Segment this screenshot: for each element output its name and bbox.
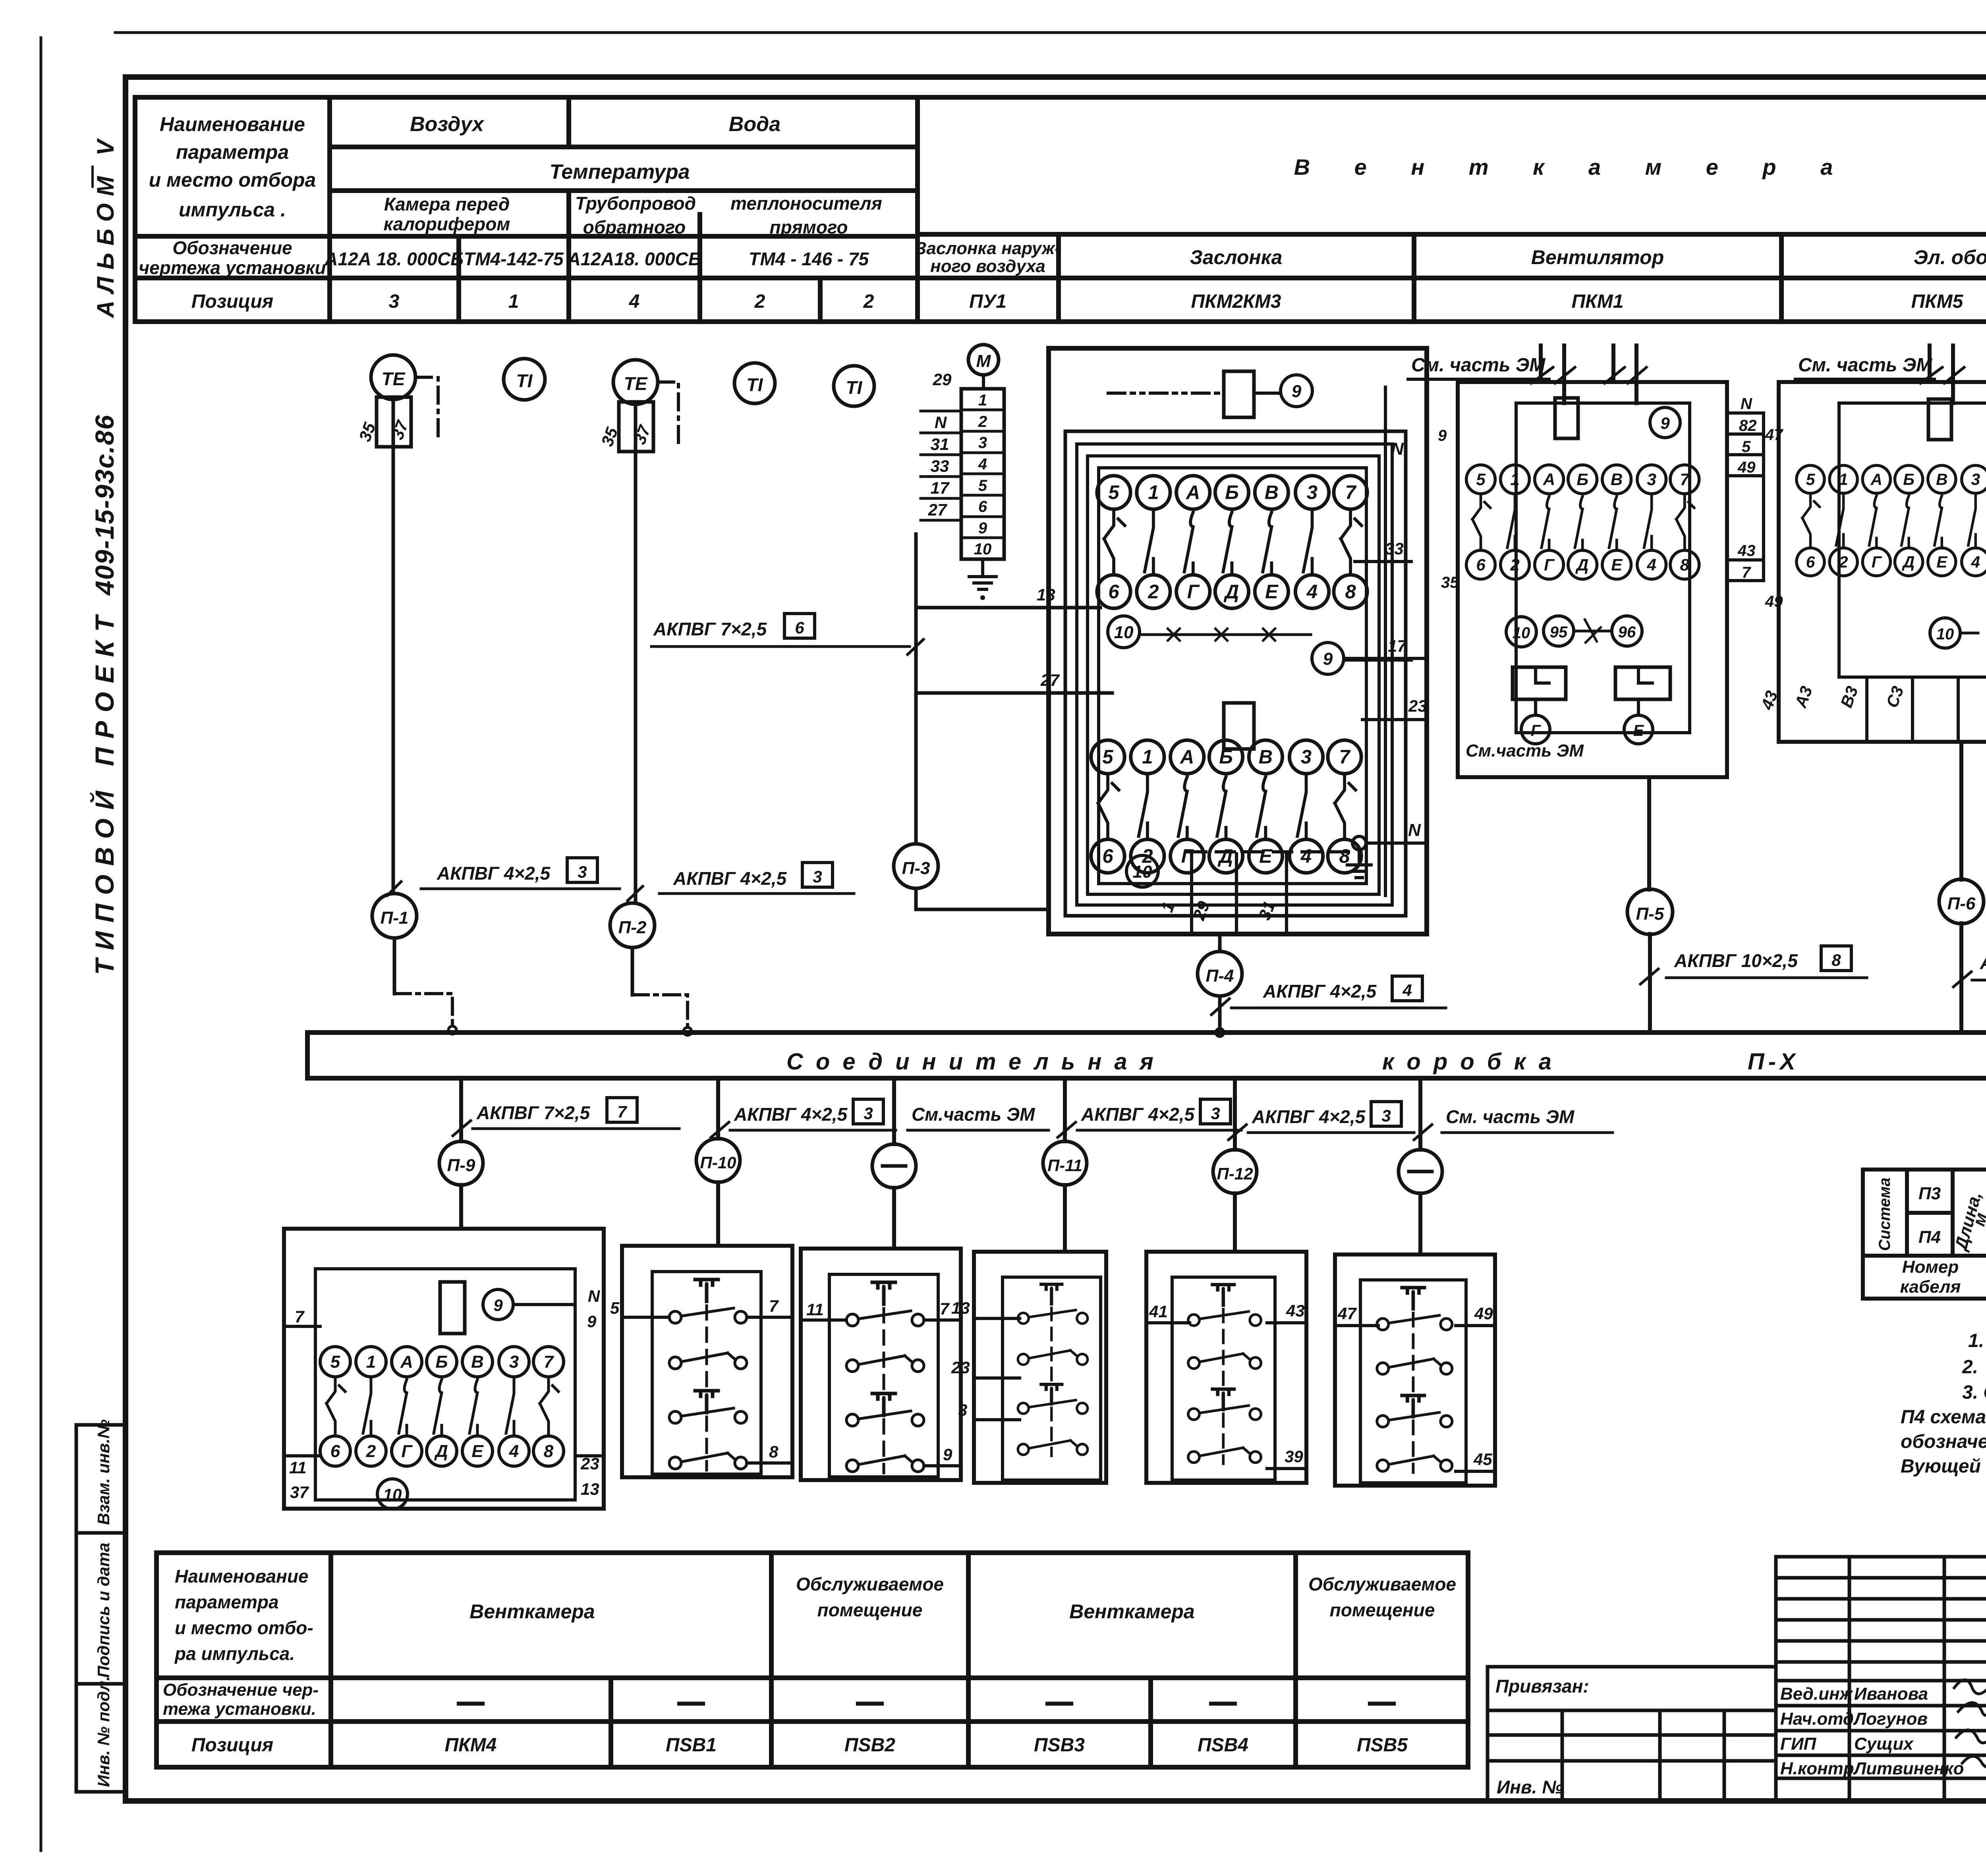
note 3 — [1901, 1382, 1986, 1477]
wire 17 right exit — [1344, 637, 1411, 660]
block A nested loops — [1065, 431, 1406, 916]
cable label AKPVG 7x2.5 [7] — [453, 1098, 679, 1136]
svg-text:9: 9 — [1323, 649, 1333, 669]
wire TE2 to cable P-2 — [634, 452, 638, 901]
svg-text:А12А18. 000СБ: А12А18. 000СБ — [567, 249, 701, 269]
svg-text:Система: Система — [1876, 1177, 1893, 1251]
svg-text:П-10: П-10 — [700, 1153, 736, 1172]
svg-text:Вед.инж: Вед.инж — [1780, 1684, 1854, 1704]
wire P-4 riser — [1216, 934, 1224, 1036]
svg-text:17: 17 — [931, 479, 950, 497]
svg-text:N: N — [1391, 439, 1404, 459]
svg-text:6: 6 — [795, 618, 804, 637]
svg-text:13: 13 — [1037, 585, 1055, 604]
svg-text:Наименование: Наименование — [175, 1566, 309, 1586]
P-5 block outer rect — [1458, 382, 1727, 777]
PKM4 side labels — [289, 1287, 601, 1502]
block A relay coil 1 — [1108, 371, 1254, 417]
block PSB2 inner rect — [829, 1274, 938, 1477]
svg-text:N: N — [1741, 395, 1752, 413]
svg-text:5: 5 — [610, 1299, 620, 1317]
svg-text:9: 9 — [1438, 427, 1447, 444]
wire 27 left exit — [916, 671, 1112, 693]
svg-text:Инв. № подл.: Инв. № подл. — [94, 1676, 113, 1787]
PSB5 stubs and labels — [1335, 1304, 1495, 1471]
svg-text:Температура: Температура — [549, 160, 690, 183]
svg-text:5: 5 — [1742, 438, 1751, 455]
svg-text:Обозначение: Обозначение — [172, 237, 292, 258]
svg-text:Вующей системы.: Вующей системы. — [1901, 1456, 1986, 1477]
title left box privyazan — [1488, 1667, 1776, 1801]
cable circle P-6 — [1939, 879, 1984, 924]
wire P-5 riser — [1649, 777, 1650, 1033]
svg-text:2.: 2. — [1962, 1357, 1978, 1378]
svg-text:9: 9 — [1660, 414, 1670, 432]
svg-text:17: 17 — [1388, 637, 1407, 655]
wire 13 left exit — [916, 585, 1100, 608]
left stamp text podpis — [94, 1543, 113, 1678]
cable label AKPVG 4x2.5 [3] lower3 — [1229, 1102, 1414, 1140]
P-6 block outer rect — [1779, 382, 1986, 742]
wire P-10 to PSB1 — [716, 1182, 720, 1246]
svg-text:П-3: П-3 — [902, 859, 930, 878]
dash circle lower2 — [1399, 1150, 1442, 1193]
svg-text:5: 5 — [978, 477, 987, 494]
P-5 right side stubs — [1727, 395, 1764, 581]
P-6 left labels 47 49 — [1765, 426, 1783, 610]
block A circle 9 mid — [1312, 643, 1427, 674]
svg-text:3: 3 — [978, 434, 987, 452]
svg-text:Сущих: Сущих — [1854, 1734, 1914, 1754]
cable circle P-5 — [1627, 889, 1673, 934]
svg-text:ПSB1: ПSB1 — [666, 1735, 717, 1756]
block PSB5 inner rect — [1360, 1280, 1466, 1483]
svg-text:10: 10 — [1133, 862, 1152, 882]
svg-text:АКПВГ 7×2,5: АКПВГ 7×2,5 — [476, 1102, 591, 1123]
svg-text:N: N — [935, 413, 947, 432]
wire 33 right exit — [1355, 539, 1411, 562]
svg-text:96: 96 — [1618, 623, 1636, 641]
svg-text:27: 27 — [928, 500, 947, 519]
header cell: kamera pered kaloriferom — [384, 194, 510, 234]
svg-text:параметра: параметра — [176, 141, 289, 163]
svg-text:29: 29 — [933, 370, 952, 389]
title stamp signatures — [1954, 1680, 1986, 1768]
wire TE1 to cable P-1 — [392, 447, 395, 894]
svg-text:9: 9 — [493, 1296, 503, 1314]
svg-text:ПSB2: ПSB2 — [844, 1735, 895, 1756]
cable table header rotated — [1876, 1177, 1986, 1253]
P-6 contact cluster — [1797, 465, 1986, 576]
cable label AKPVG 4x2.5 [3] on P-2 — [628, 863, 854, 901]
svg-text:См. часть ЭМ: См. часть ЭМ — [1446, 1106, 1575, 1127]
P-5 relay coil — [1555, 398, 1578, 438]
left stamp text vzam — [94, 1419, 113, 1525]
svg-text:Инв. №: Инв. № — [1497, 1777, 1563, 1797]
svg-text:АКПВГ 7×2,5: АКПВГ 7×2,5 — [653, 619, 767, 639]
header cell: voda — [729, 113, 780, 136]
P-6 dashed bottom bus — [1962, 633, 1986, 692]
svg-text:ТМ4 - 146 - 75: ТМ4 - 146 - 75 — [749, 249, 869, 269]
svg-text:Камера перед: Камера перед — [384, 194, 510, 214]
header value row right part — [969, 291, 1986, 312]
cable circle P-12 — [1213, 1150, 1257, 1193]
svg-text:23: 23 — [951, 1358, 970, 1377]
svg-text:11: 11 — [806, 1300, 824, 1319]
svg-text:П4 схема аналогична с за: П4 схема аналогична с заменой индекса „ … — [1901, 1407, 1986, 1428]
svg-text:9: 9 — [943, 1445, 952, 1464]
block A bottom exit wires — [1192, 854, 1287, 934]
svg-text:Позиция: Позиция — [191, 291, 273, 312]
svg-text:1: 1 — [1157, 899, 1178, 915]
svg-text:49: 49 — [1765, 593, 1783, 610]
svg-text:9: 9 — [978, 519, 987, 537]
PSB2 innards — [846, 1282, 924, 1473]
svg-text:П4: П4 — [1918, 1228, 1941, 1247]
motor circle M — [968, 345, 999, 389]
svg-text:В е н т к а м е р а: В е н т к а м е р а — [1294, 154, 1852, 179]
cable circle P-9 — [439, 1141, 483, 1185]
cable label AKPVG 10x2.5 [8] — [1640, 946, 1867, 984]
svg-text:37: 37 — [388, 418, 412, 442]
block A lower contact cluster — [1091, 740, 1361, 873]
cable circle P-2 — [610, 903, 655, 948]
P-6 bottom terminal wires — [1867, 677, 1986, 742]
svg-text:коробка: коробка — [1382, 1049, 1564, 1075]
cable circle P-4 — [1198, 952, 1242, 996]
svg-text:Воздух: Воздух — [410, 113, 485, 136]
PSB4 innards — [1188, 1285, 1261, 1464]
dash-dot stub TE2 — [658, 382, 678, 446]
incoming wires P-5 block — [1531, 345, 1646, 403]
svg-text:82: 82 — [1739, 417, 1757, 434]
incoming wires P-6 block — [1920, 345, 1986, 403]
svg-text:См.часть ЭМ: См.часть ЭМ — [912, 1104, 1036, 1125]
wire P-11 to PSB3 — [1063, 1185, 1067, 1252]
svg-text:11: 11 — [289, 1458, 307, 1477]
wire P-12 to PSB4 — [1233, 1193, 1237, 1252]
PSB4 stubs and labels — [1146, 1301, 1306, 1469]
svg-text:и место отбо-: и место отбо- — [175, 1617, 313, 1638]
svg-text:Привязан:: Привязан: — [1495, 1676, 1589, 1697]
svg-text:33: 33 — [1385, 539, 1404, 558]
svg-text:В3: В3 — [1837, 684, 1862, 710]
svg-text:9: 9 — [1292, 382, 1302, 401]
label Sm.chast EM lower2 — [1414, 1106, 1613, 1140]
svg-text:N: N — [1408, 820, 1421, 840]
terminal strip left of block A — [921, 389, 1004, 559]
svg-text:39: 39 — [1285, 1447, 1303, 1466]
svg-text:П-9: П-9 — [447, 1156, 475, 1175]
block PSB3 outer rect — [974, 1252, 1106, 1483]
block A circle 10 lower — [1126, 855, 1158, 887]
svg-text:А3: А3 — [1791, 684, 1816, 710]
svg-text:ТМ4-142-75: ТМ4-142-75 — [464, 249, 564, 269]
svg-text:7: 7 — [769, 1297, 779, 1315]
svg-text:3: 3 — [813, 867, 822, 886]
P-6 block inner rect — [1839, 403, 1986, 677]
svg-text:Г: Г — [1531, 722, 1542, 739]
svg-text:Наименование: Наименование — [160, 113, 305, 135]
svg-text:Номер: Номер — [1902, 1257, 1959, 1277]
svg-text:6: 6 — [978, 498, 987, 515]
wire P-9 drop — [459, 1078, 463, 1141]
note 2 — [1962, 1357, 1986, 1378]
cable table bottom label — [1900, 1257, 1961, 1297]
header big cell: ventkamera — [1294, 154, 1852, 179]
label Sm.chast EM above P-6 block — [1798, 355, 1932, 376]
wire EM drop 1 — [892, 1078, 896, 1144]
svg-text:ГИП: ГИП — [1780, 1734, 1817, 1754]
svg-text:Обслуживаемое: Обслуживаемое — [796, 1574, 944, 1594]
wire dash2 to PSB5 — [1418, 1193, 1422, 1255]
label 37 TE1 — [388, 418, 412, 442]
svg-text:10: 10 — [1513, 624, 1530, 642]
bottom-left table row3 — [191, 1735, 1408, 1756]
svg-text:2: 2 — [863, 291, 874, 312]
PKM4 circle 10 — [377, 1479, 408, 1509]
block PSB5 outer rect — [1335, 1255, 1495, 1486]
svg-text:35: 35 — [1441, 574, 1459, 591]
P-5 circles G E — [1521, 715, 1653, 744]
svg-text:Логунов: Логунов — [1853, 1709, 1928, 1729]
ground under strip — [969, 559, 996, 600]
svg-text:теплоносителя: теплоносителя — [730, 193, 882, 214]
sensor TI3 — [834, 366, 874, 406]
sensor TI1 — [504, 359, 545, 400]
P-5 circle 9 — [1650, 407, 1680, 438]
cable label AKPVG 4x2.5 [3] on P-1 — [387, 858, 620, 896]
svg-text:37: 37 — [290, 1483, 309, 1502]
svg-text:41: 41 — [1149, 1302, 1168, 1321]
svg-text:23: 23 — [1408, 697, 1427, 715]
svg-text:4: 4 — [629, 291, 640, 312]
svg-text:3: 3 — [1381, 1106, 1391, 1125]
PSB3 innards — [1018, 1284, 1088, 1456]
cable label AKPVG 4x2.5 [3] lower1 — [711, 1099, 896, 1137]
dash-dot stub TE1 — [415, 377, 438, 441]
P-6 bottom rotated labels — [1757, 684, 1986, 712]
svg-text:Н.контр: Н.контр — [1780, 1759, 1854, 1778]
svg-text:ного воздуха: ного воздуха — [930, 257, 1045, 276]
left margin vertical text: project number — [89, 414, 119, 975]
P-5 thermal elements — [1513, 667, 1670, 715]
block A outer rect — [1049, 348, 1427, 934]
left margin vertical text: album — [92, 138, 119, 318]
svg-text:13: 13 — [951, 1299, 970, 1317]
svg-text:Соединительная: Соединительная — [786, 1049, 1166, 1075]
block PKM4 outer rect — [284, 1229, 604, 1509]
privyazan text — [1495, 1676, 1589, 1797]
header cell: temperatura — [549, 160, 690, 183]
PSB1 stubs and labels — [610, 1297, 792, 1463]
svg-text:чертежа установки: чертежа установки — [139, 257, 326, 278]
svg-text:Трубопровод: Трубопровод — [575, 193, 696, 214]
svg-text:АЛЬБОМV: АЛЬБОМV — [92, 138, 119, 318]
svg-text:ПКМ1: ПКМ1 — [1572, 291, 1624, 312]
svg-text:ра импульса.: ра импульса. — [174, 1643, 295, 1664]
block PKM4 inner rect — [315, 1269, 575, 1500]
svg-text:А12А 18. 000СБ: А12А 18. 000СБ — [324, 249, 464, 269]
svg-text:Нач.отд: Нач.отд — [1780, 1709, 1854, 1729]
bottom-left table header texts — [174, 1566, 1456, 1664]
top-left parameter table grid — [135, 97, 1986, 322]
svg-text:См.часть ЭМ: См.часть ЭМ — [1466, 741, 1584, 760]
svg-text:Литвиненко: Литвиненко — [1853, 1759, 1964, 1778]
svg-text:помещение: помещение — [1330, 1600, 1435, 1620]
wire P-9 to PKM4 — [459, 1185, 463, 1229]
svg-text:3: 3 — [1211, 1104, 1220, 1123]
svg-text:калорифером: калорифером — [384, 214, 510, 234]
svg-text:2: 2 — [978, 413, 987, 430]
svg-text:8: 8 — [769, 1442, 779, 1461]
P-6 circle 10 — [1930, 618, 1960, 648]
svg-text:TE: TE — [624, 373, 648, 394]
svg-text:АКПВГ 4×2,5: АКПВГ 4×2,5 — [734, 1104, 848, 1125]
P-5 block bottom label Sm.chast EM — [1466, 741, 1584, 760]
block PSB4 outer rect — [1146, 1252, 1306, 1483]
sensor TE1 — [371, 355, 415, 447]
svg-text:Обслуживаемое: Обслуживаемое — [1308, 1574, 1456, 1594]
svg-text:7: 7 — [617, 1102, 627, 1121]
P-6 relay coil — [1928, 399, 1951, 440]
P-5 contact cluster — [1466, 465, 1699, 579]
wire 23 right exit — [1362, 697, 1427, 858]
svg-text:С3: С3 — [1882, 684, 1907, 710]
block PSB3 inner rect — [1003, 1277, 1101, 1480]
svg-text:TI: TI — [516, 371, 533, 391]
svg-text:N: N — [588, 1287, 601, 1305]
junction box text — [786, 1049, 1799, 1075]
svg-text:ПSB5: ПSB5 — [1357, 1735, 1408, 1756]
cable circle P-11 — [1043, 1141, 1087, 1185]
svg-text:кабеля: кабеля — [1900, 1277, 1961, 1297]
cable circle P-3 — [894, 844, 938, 888]
block A demolish line with x marks — [1140, 629, 1311, 641]
svg-text:10: 10 — [974, 540, 992, 558]
svg-text:4: 4 — [978, 455, 987, 473]
block A upper contact cluster — [1097, 476, 1367, 608]
svg-text:49: 49 — [1737, 459, 1756, 476]
svg-text:АКПВГ 5×2,5: АКПВГ 5×2,5 — [1980, 952, 1986, 973]
PSB2 stubs and labels — [801, 1299, 961, 1466]
svg-text:4: 4 — [1402, 981, 1412, 1000]
svg-text:М: М — [976, 351, 991, 371]
svg-text:П-6: П-6 — [1947, 894, 1976, 913]
PKM4 relay coil — [440, 1282, 465, 1334]
title stamp tall table — [1776, 1557, 1986, 1801]
svg-text:Венткамера: Венткамера — [1069, 1600, 1194, 1623]
cable label AKPVG 5x2.5 [5] — [1953, 948, 1986, 987]
svg-text:ПSB4: ПSB4 — [1198, 1735, 1248, 1756]
svg-text:1: 1 — [978, 392, 987, 409]
svg-text:П-Х: П-Х — [1748, 1049, 1799, 1075]
PSB5 innards — [1377, 1287, 1452, 1473]
label 37 TE2 — [630, 423, 654, 447]
dash circle lower1 — [872, 1144, 916, 1188]
svg-text:ПКМ5: ПКМ5 — [1911, 291, 1964, 312]
wire P-10 drop — [716, 1078, 720, 1139]
border: outer top thin line — [115, 31, 1986, 34]
svg-text:П-11: П-11 — [1047, 1156, 1082, 1175]
svg-text:27: 27 — [1040, 671, 1060, 689]
svg-text:31: 31 — [931, 435, 949, 454]
svg-text:П-4: П-4 — [1206, 966, 1234, 986]
svg-text:3: 3 — [578, 863, 587, 881]
svg-text:АКПВГ 4×2,5: АКПВГ 4×2,5 — [437, 863, 551, 884]
label 35 TE1 — [355, 420, 379, 444]
bottom-left table row2 — [163, 1680, 319, 1719]
svg-text:Вентилятор: Вентилятор — [1531, 246, 1664, 268]
sensor TE2 — [613, 360, 658, 452]
wire dash1 to PSB2 — [892, 1188, 896, 1249]
cable circle P-1 — [372, 894, 417, 938]
bottom-left table grid — [156, 1553, 1468, 1767]
svg-text:П-5: П-5 — [1636, 904, 1664, 924]
wire N riser right of block A — [1385, 387, 1404, 896]
header cell: vozduh — [410, 113, 485, 136]
svg-text:Позиция: Позиция — [191, 1735, 273, 1756]
PKM4 contact cluster — [320, 1347, 564, 1466]
svg-text:1.: 1. — [1968, 1330, 1984, 1351]
svg-text:9: 9 — [587, 1312, 597, 1331]
svg-text:Эл. обогрев заслонки: Эл. обогрев заслонки — [1914, 246, 1986, 268]
svg-text:АКПВГ 4×2,5: АКПВГ 4×2,5 — [1263, 981, 1377, 1002]
svg-text:2: 2 — [754, 291, 765, 312]
svg-text:TI: TI — [846, 377, 863, 398]
svg-text:43: 43 — [1286, 1301, 1305, 1320]
svg-text:ПКМ4: ПКМ4 — [445, 1735, 497, 1756]
svg-text:тежа установки.: тежа установки. — [163, 1699, 316, 1719]
svg-text:П-2: П-2 — [618, 918, 647, 937]
P-5 block inner rect — [1516, 403, 1690, 733]
svg-text:импульса .: импульса . — [179, 199, 286, 221]
header cells row2 right part — [915, 239, 1986, 276]
cable label AKPVG 7x2.5 [6] on P-3 riser — [651, 614, 923, 654]
svg-text:TI: TI — [747, 374, 763, 395]
block PSB4 inner rect — [1172, 1277, 1275, 1480]
note 1 — [1968, 1330, 1986, 1351]
header cell: parameter name — [149, 113, 316, 221]
wire P-6 riser — [1959, 742, 1963, 1033]
PSB1 innards — [669, 1280, 747, 1470]
svg-text:ПSB3: ПSB3 — [1034, 1735, 1085, 1756]
block A circle 10 upper — [1108, 616, 1140, 648]
svg-text:Е: Е — [1633, 722, 1644, 739]
cable label AKPVG 4x2.5 [4] on P-4 — [1211, 976, 1446, 1015]
cable length table grid — [1863, 1170, 1986, 1299]
left stamp text inv — [94, 1676, 113, 1787]
svg-text:33: 33 — [931, 457, 949, 475]
svg-text:См. часть ЭМ: См. часть ЭМ — [1411, 355, 1546, 376]
block A circle 9 top — [1254, 375, 1312, 407]
title stamp names — [1780, 1684, 1964, 1778]
svg-text:обратного: обратного — [583, 217, 686, 237]
block PSB2 outer rect — [801, 1249, 961, 1480]
P-5 left labels — [1438, 427, 1459, 591]
svg-text:Обозначение чер-: Обозначение чер- — [163, 1680, 319, 1700]
svg-text:Взам. инв.№: Взам. инв.№ — [94, 1419, 113, 1525]
svg-text:АКПВГ 4×2,5: АКПВГ 4×2,5 — [673, 868, 787, 889]
svg-text:47: 47 — [1337, 1304, 1357, 1323]
svg-text:49: 49 — [1474, 1304, 1493, 1323]
svg-text:АКПВГ 4×2,5: АКПВГ 4×2,5 — [1081, 1104, 1195, 1125]
wire P-1 to junction box — [394, 938, 456, 1034]
svg-text:3. Схема выполнена для сист: 3. Схема выполнена для системы П3 , для … — [1962, 1382, 1986, 1403]
svg-text:Вода: Вода — [729, 113, 780, 136]
svg-text:10: 10 — [1936, 625, 1954, 643]
svg-text:Заслонка наруж-: Заслонка наруж- — [915, 239, 1061, 258]
